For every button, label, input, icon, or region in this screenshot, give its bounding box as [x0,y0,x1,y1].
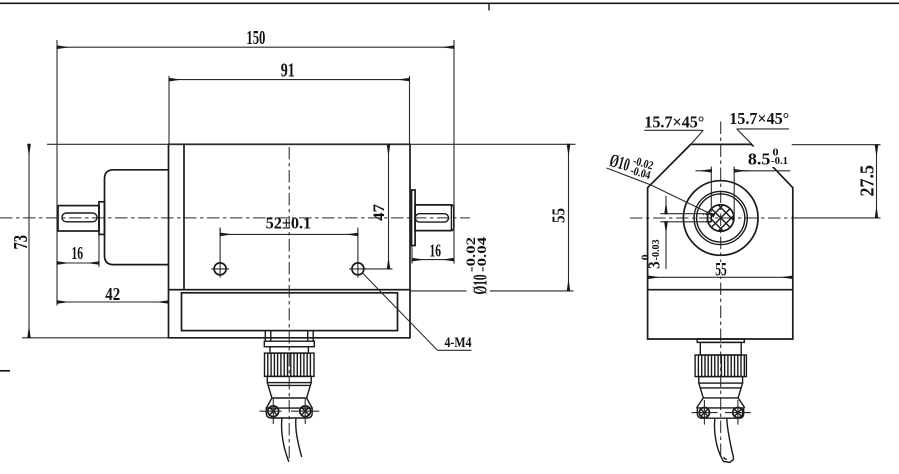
sheet centering mark top [488,3,490,10]
dimension 55 front [410,144,574,291]
svg-text:-0.04: -0.04 [474,236,489,272]
svg-text:8.5: 8.5 [748,149,771,168]
shaft section circle [707,205,734,232]
left shaft [58,206,99,231]
svg-text:-0.03: -0.03 [651,239,662,260]
dimension 8.5 top [696,146,792,216]
front connector neck lines [265,331,313,342]
dimension 73 [10,144,169,337]
front view horizontal centerline [0,217,470,219]
svg-text:16: 16 [429,241,441,261]
svg-text:0: 0 [641,254,652,260]
side body outline with chamfers [648,144,793,339]
svg-text:150: 150 [246,27,265,49]
svg-text:47: 47 [371,204,388,221]
front body inner left wall line [183,144,185,289]
side connector upper barrel [700,342,741,355]
M4 hole right [349,228,367,278]
front body outline [169,144,411,289]
svg-text:4-M4: 4-M4 [445,335,472,351]
front top extension line (73/55 dims) [47,143,576,145]
front base inner plate [182,293,398,331]
boss outer circle [683,181,758,256]
front connector taper [267,383,311,398]
side cable [714,419,733,463]
side body mid line [648,289,793,291]
side connector bottom flange [697,408,743,418]
left end cap rounded [105,170,169,265]
svg-text:55: 55 [549,208,569,223]
right shaft collar bar [412,190,416,246]
left shaft keyway [62,213,97,222]
side view vertical centerline [720,122,722,456]
svg-text:-0.1: -0.1 [771,155,788,167]
front clamp screw left [260,399,282,424]
dimension 27.5 [792,145,881,218]
right shaft keyway [415,214,448,222]
boss ring circle outer [694,191,747,244]
svg-text:42: 42 [105,284,120,304]
left shaft collar [99,202,105,235]
svg-text:3: 3 [645,261,664,269]
svg-text:Ø10: Ø10 [470,275,492,295]
side connector taper [699,383,743,398]
svg-text:16: 16 [72,243,84,263]
front connector knurled ring [265,353,315,376]
svg-text:73: 73 [10,235,32,250]
sheet border top line [0,2,899,4]
svg-text:15.7×45°: 15.7×45° [729,109,789,128]
dimension 16 right [412,241,454,264]
front connector lower barrel [267,376,311,382]
chamfer label 15.7x45 right [729,109,789,144]
boss ring circle inner [697,194,745,242]
svg-text:27.5: 27.5 [858,165,879,197]
side connector clamp flare [697,398,745,408]
dimension 3 keyway [641,196,667,269]
front clamp screw right [291,399,319,424]
side connector knurled ring [695,355,746,377]
side clamp screw left [692,400,718,425]
diameter 10 tolerance label front [463,236,492,294]
svg-text:55: 55 [715,260,727,280]
right shaft end inner line [450,206,452,231]
svg-text:91: 91 [281,59,295,81]
keyway extension lines left [660,214,708,222]
sheet centering mark left [0,370,10,372]
side view horizontal centerline [630,217,793,219]
dimension 47 [362,144,393,269]
keyway notch [708,214,711,222]
dimension 16 left [57,234,99,266]
4-M4 leader and label [362,272,472,351]
front connector bottom flange [266,408,312,418]
side connector top flange [697,339,744,342]
diameter 10 leader label side [607,147,715,215]
M4 hole left [211,228,229,278]
dimension 42 [57,284,169,304]
dimension 91 [169,59,410,144]
side connector lower barrel [699,377,743,384]
front cable [282,419,302,462]
front base outer [169,290,411,338]
front connector top flange [264,341,314,347]
svg-text:15.7×45°: 15.7×45° [644,112,704,131]
dimension 55 side [648,260,793,280]
dimension 52 +-0.1 [220,213,358,234]
front connector upper barrel [270,347,308,353]
svg-text:52±0.1: 52±0.1 [266,213,312,232]
chamfer label 15.7x45 left [644,112,704,144]
front view vertical centerline [288,147,290,462]
side clamp screw right [725,400,751,425]
dimension 150 [57,27,454,305]
right shaft [415,205,454,231]
front connector clamp flare [266,398,312,408]
